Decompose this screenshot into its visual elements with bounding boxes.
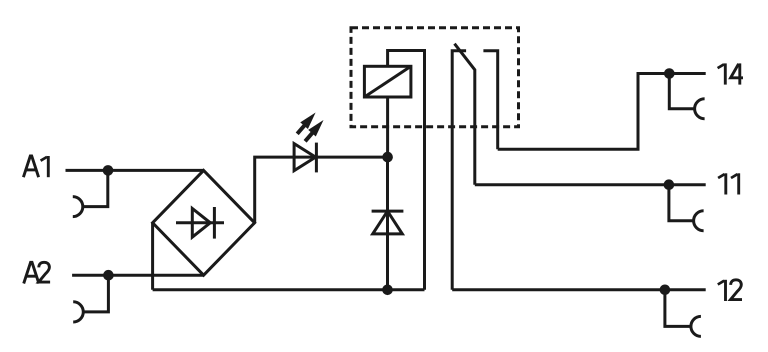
- wire bridge negative to bottom rail: [151, 223, 154, 290]
- node A2 label: [24, 262, 50, 283]
- node 11 junction: [664, 179, 675, 190]
- node 11 label: [718, 173, 739, 194]
- wire coil bottom to junction: [386, 97, 389, 157]
- relay K1 dashed enclosure: [351, 28, 519, 127]
- relay contact movable blade (common, to 11): [455, 44, 475, 185]
- LED D1: [294, 113, 323, 173]
- wire coil top loop to rail: [388, 51, 425, 290]
- terminal 12 clamp: [665, 290, 701, 337]
- terminal A2 clamp: [73, 275, 108, 322]
- node bottom rail junction: [382, 285, 393, 296]
- wire 14 route: [498, 74, 706, 150]
- relay coil K1: [364, 66, 411, 97]
- wire A2 input: [72, 274, 204, 277]
- terminal A1 clamp: [73, 170, 108, 216]
- terminal 11 clamp: [669, 185, 704, 231]
- wire LED cathode to coil junction: [294, 156, 388, 159]
- bridge rectifier BR1 inner diode: [176, 207, 224, 239]
- node LED cathode junction: [382, 152, 393, 163]
- node A2 junction: [103, 270, 114, 281]
- wire bridge positive riser: [255, 157, 294, 223]
- relay contact NO fixed terminal (to 14): [483, 51, 497, 149]
- wire A1 input: [66, 169, 204, 172]
- node 12 label: [718, 280, 742, 301]
- wire 12: [452, 288, 706, 291]
- node 12 junction: [660, 285, 671, 296]
- bridge rectifier BR1 outline: [153, 170, 255, 275]
- wire bottom rail: [153, 288, 425, 291]
- node 14 junction: [664, 68, 675, 79]
- diode D2 freewheel: [372, 157, 404, 290]
- node A1 junction: [103, 165, 114, 176]
- node A1 label: [23, 156, 48, 177]
- terminal 14 clamp: [669, 74, 704, 119]
- node 14 label: [718, 63, 743, 84]
- wire 11: [475, 183, 706, 186]
- relay contact NC fixed terminal (to 12): [452, 51, 466, 290]
